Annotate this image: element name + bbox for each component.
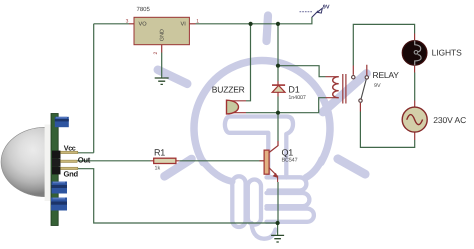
svg-text:1: 1 [196,18,199,24]
PIR pcb strip [51,114,58,226]
AC source 230V [402,107,466,132]
ground below 7805 [155,78,169,84]
wire: PIR Vcc to riser [78,152,94,154]
diode D1 1n4007 [272,85,306,102]
wire: 7805 VI to 9V terminal riser [196,17,312,24]
PIR trimpot bottom 2 [51,198,67,211]
wire: PIR Gnd down and bottom rail [78,169,278,223]
PIR connector housing [52,151,61,159]
lamp LIGHTS [402,41,462,66]
svg-text:LIGHTS: LIGHTS [432,47,463,57]
pin: 7805 VO [129,23,134,25]
wire: left vertical (Vcc riser) [93,24,95,153]
finger loop 1 [267,177,307,190]
watermark: light-bulb-in-hand logo [158,16,367,239]
pin: relay throws and pole [353,65,367,112]
wire: lamp top to switch [353,24,414,65]
resistor R1 [154,158,176,163]
wire: D1 anode down [277,97,279,113]
pin: AC source top/bottom [414,101,416,141]
PIR pin Out [61,160,78,162]
svg-text:9V: 9V [374,83,381,89]
svg-text:230V AC: 230V AC [433,115,466,125]
wire: top-left rail to 7805 VO [94,23,129,25]
buzzer BZ1 [227,100,239,114]
knuckle bar B [248,180,261,225]
node: emitter/ground junction [276,221,280,225]
svg-text:1k: 1k [155,165,161,171]
PIR pin Gnd [61,167,78,169]
pin: 7805 VI [189,23,195,25]
transistor Q1 BC547 [260,141,298,182]
relay contacts [352,76,355,79]
svg-text:Vcc: Vcc [64,144,76,153]
finger loop 2 [267,193,310,206]
pin: 7805 GND [161,45,163,53]
svg-text:9V: 9V [323,5,330,11]
svg-text:R1: R1 [154,147,165,157]
PIR white edge strip [45,125,51,202]
svg-text:BUZZER: BUZZER [212,84,245,94]
pinky hook [252,223,276,239]
node: D1/coil junction [276,64,280,68]
wire: AC top to lamp bottom [414,73,416,101]
wire: emitter vertical [277,182,279,223]
svg-text:RELAY: RELAY [373,70,400,80]
svg-text:BC547: BC547 [282,158,298,164]
pin: lamp top/bottom [414,34,416,73]
svg-text:2: 2 [153,52,159,55]
pin: buzzer top/bottom [230,101,246,113]
wire: buzzer top up to rail [246,24,251,101]
wire: bottom bus buzzer-D1-Q1-coil [246,98,326,113]
pin: relay coil leads [326,77,339,98]
node: buzzer/rail junction [249,22,253,26]
wire: D1 junction to relay coil top [278,66,326,77]
wire: top rail through D1 vertical [277,24,279,81]
relay core bars [343,74,346,104]
svg-text:3: 3 [126,18,129,24]
PIR dome [1,127,45,196]
PIR pin Vcc [61,151,78,153]
PIR sensor module [1,114,91,226]
relay arm [361,80,366,99]
ray upper-right [323,74,367,113]
power terminal 9V [300,5,330,18]
bulb neck left [202,160,232,182]
node: D1 vertical/rail junction [276,22,280,26]
ray upper-left [158,70,187,84]
bulb glass circle [194,61,330,163]
knuckle bar A [232,176,245,227]
bulb neck right [306,159,322,178]
svg-text:1n4007: 1n4007 [288,95,305,101]
finger loop 3 [267,209,314,222]
wire: collector vertical [277,113,279,141]
ray lower-right [338,159,365,174]
svg-text:Q1: Q1 [282,147,294,157]
pin: R1 left / right [151,160,180,162]
wire: emitter ground stub [277,223,279,235]
svg-text:VI: VI [181,22,187,28]
svg-text:D1: D1 [288,85,299,95]
ground below Q1 emitter [271,235,284,242]
node: collector junction [276,111,280,115]
svg-text:GND: GND [160,29,166,41]
svg-text:7805: 7805 [137,6,151,13]
wire: relay pole down to AC loop [360,112,414,148]
ray top [267,16,269,42]
PIR trimpot bottom 1 [52,182,68,194]
relay RL1 [333,70,400,104]
svg-text:VO: VO [139,22,148,28]
PIR trimpot top [55,117,69,127]
relay coil [333,77,339,98]
wire: PIR Out to R1 and R1 to Q1 base [77,160,259,162]
regulator U1 7805 body [134,17,189,44]
pin: D1 top/bottom [277,81,279,97]
svg-text:Out: Out [78,155,91,164]
ray lower-left [165,159,192,176]
wire: 7805 GND down to ground [161,53,163,78]
hand thumb + stem outline [225,117,293,178]
svg-text:Gnd: Gnd [64,170,79,179]
